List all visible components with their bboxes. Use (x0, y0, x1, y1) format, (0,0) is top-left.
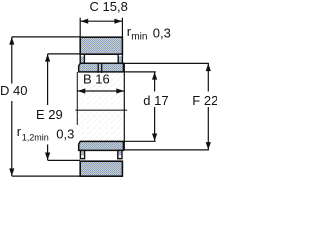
shaft shoulder line (76, 109, 128, 111)
C dimension witness lines (79, 18, 81, 37)
svg-text:d 17: d 17 (143, 93, 168, 108)
B witness line right (123, 63, 125, 150)
svg-text:E 29: E 29 (36, 107, 63, 122)
outer ring (top section) (80, 37, 122, 54)
svg-text:F 22: F 22 (192, 93, 217, 108)
d vertical line with arrows (154, 72, 156, 92)
inner ring (bottom section) (79, 141, 124, 150)
svg-text:D 40: D 40 (0, 83, 27, 98)
roller joint lines on top inner ring (97, 63, 99, 73)
cage bar right (bottom section) (118, 150, 122, 158)
D dimension vertical line with arrows (11, 37, 13, 84)
inner ring (top section) (79, 63, 124, 72)
E dimension vertical line with arrows (47, 54, 49, 105)
E top extension line (48, 53, 81, 55)
shaft hatch area in bore (78, 73, 126, 141)
svg-text:0,3: 0,3 (56, 126, 74, 141)
svg-text:B 16: B 16 (83, 72, 110, 87)
svg-text:C 15,8: C 15,8 (90, 0, 128, 14)
F dimension bottom extension line (124, 149, 209, 151)
E bottom extension line (48, 159, 80, 161)
svg-text:1,2min: 1,2min (22, 132, 49, 142)
cage bar left (bottom section) (80, 150, 84, 158)
C dimension line with arrows (80, 20, 122, 22)
D top extension line (12, 36, 81, 38)
cage bar left (top section) (80, 54, 84, 63)
svg-text:0,3: 0,3 (153, 26, 171, 41)
D bottom extension line (12, 175, 80, 177)
outer ring (bottom section) (80, 161, 122, 176)
svg-text:min: min (131, 32, 147, 43)
d dimension bottom extension line (124, 140, 156, 142)
d dimension top extension line (124, 71, 156, 73)
F dimension top extension line (124, 62, 209, 64)
B dimension line with arrows (77, 90, 124, 92)
F vertical line with arrows (207, 63, 209, 91)
cage bar right (top section) (118, 54, 122, 63)
B witness line left (76, 72, 78, 125)
